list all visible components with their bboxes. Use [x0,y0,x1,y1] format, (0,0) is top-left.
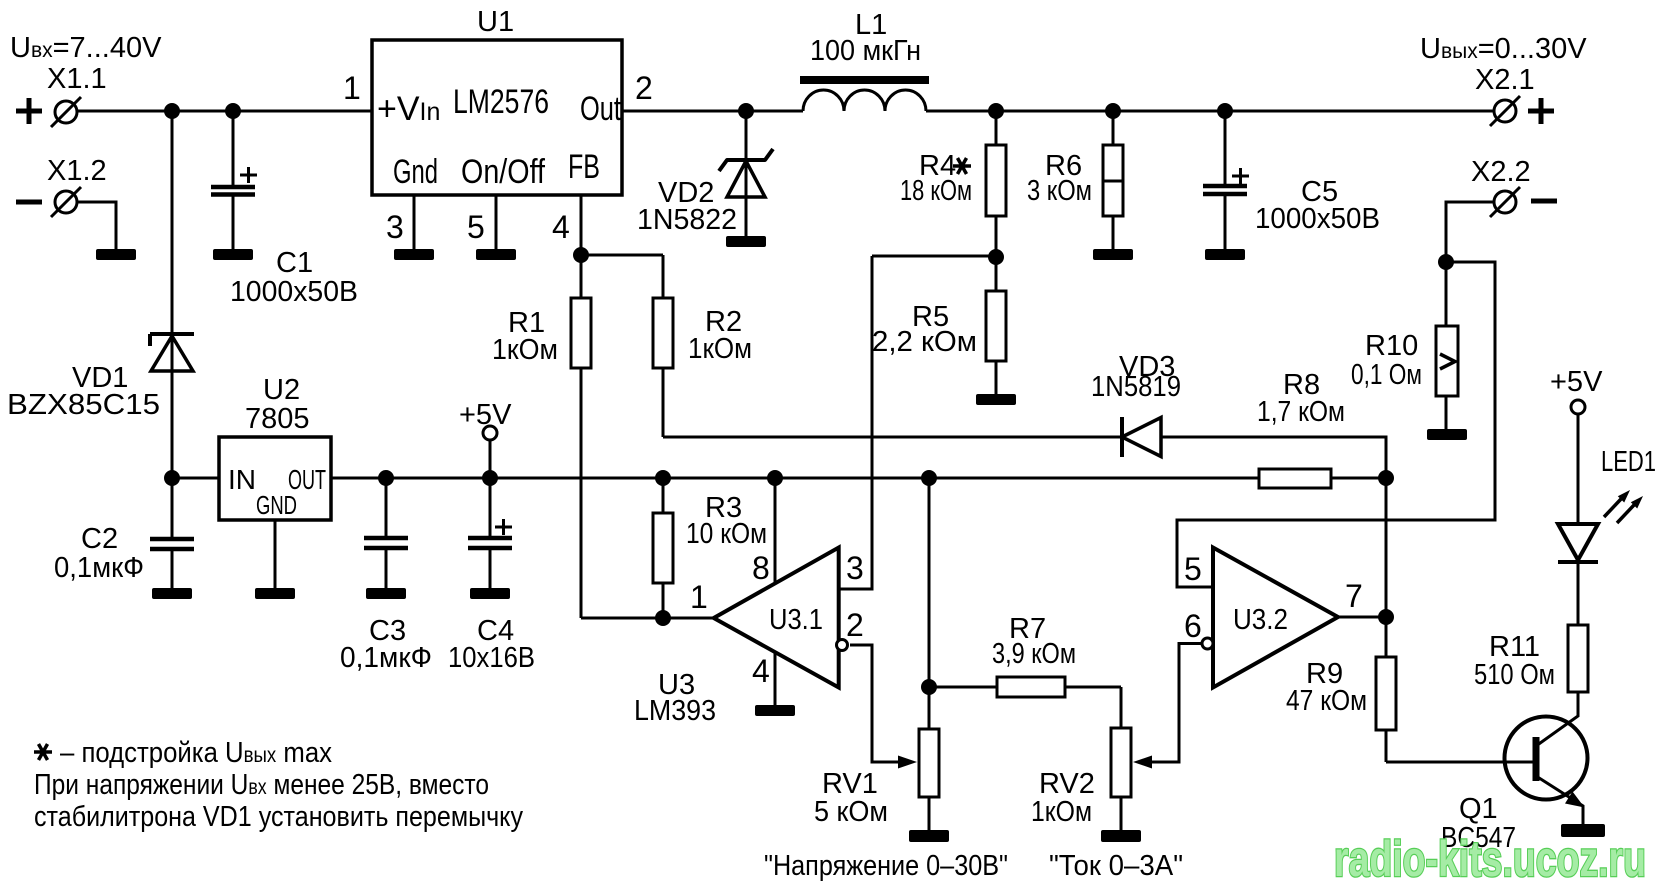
terminal X2.2 [1494,191,1516,213]
node junction input-C1 [225,103,241,119]
node junction U3.1 power pin8 [767,470,783,486]
wire pin7 output U3.2 [1338,616,1386,619]
capacitor C4 [489,440,492,538]
svg-text:1кОм: 1кОм [688,333,752,365]
wire X1.2 to ground [77,202,116,249]
wire pin4 U3.1 [774,652,777,705]
svg-text:"Ток 0–3А": "Ток 0–3А" [1049,850,1183,882]
node plus sign input [16,98,42,124]
inductor L1 [800,76,929,84]
node minus sign output [1531,199,1557,204]
svg-text:FB: FB [568,148,600,186]
svg-text:U3.2: U3.2 [1233,604,1288,636]
wire pin3 U3.1 to R4-R5 divider [839,256,872,589]
op-amp U2 7805 box [219,437,331,520]
node junction R3 top [655,470,671,486]
terminal X1.2 [55,191,77,213]
note asterisk star [34,744,52,760]
op-amp U3.2 [1213,548,1338,688]
svg-text:1N5822: 1N5822 [637,204,737,236]
node junction C4 +5V [482,470,498,486]
svg-text:1кОм: 1кОм [492,334,558,366]
node junction R8-VD3 [1378,470,1394,486]
node junction pin7-R9 [1378,609,1394,625]
node junction VD2 [738,103,754,119]
LED arrows [1604,499,1621,517]
svg-text:IN: IN [228,464,256,495]
node junction input-VD1 [164,103,180,119]
resistor R2 [662,255,665,437]
resistor R11 [1568,625,1588,692]
svg-text:1: 1 [690,579,708,615]
svg-text:4: 4 [552,209,570,245]
svg-text:X1.2: X1.2 [47,155,107,187]
svg-text:5: 5 [1184,551,1202,587]
svg-text:Gnd: Gnd [393,153,438,191]
wiper arrow RV1 [898,756,917,769]
svg-text:7805: 7805 [245,403,310,435]
svg-text:U1: U1 [477,6,514,38]
wire output rail U1.Out to L1 [622,110,803,113]
zener VD1 [150,334,194,346]
node junction RV1-R7 [921,679,937,695]
ground U3.1 pin4 [755,705,795,716]
op-amp U3.1 [714,548,839,688]
ground RV1 [909,830,949,842]
svg-text:4: 4 [752,653,770,689]
op-amp U1 LM2576 box [372,40,622,195]
wire R9 to Q1 base [1386,761,1534,764]
ground RV2 [1101,830,1141,842]
wire VD1 column [171,111,174,538]
svg-text:5 кОм: 5 кОм [814,796,888,828]
diode VD2 1N5822 [745,111,748,237]
node bubble pin2 U3.1 [837,640,848,651]
svg-text:GND: GND [256,490,297,520]
svg-text:18 кОм: 18 кОм [900,175,972,207]
ground R10 [1427,429,1467,440]
ground Q1 emitter [1561,824,1605,837]
svg-text:510 Ом: 510 Ом [1474,659,1555,691]
node junction R4 [988,103,1004,119]
svg-text:2: 2 [846,607,864,643]
ground U2 [255,588,295,599]
resistor R1 [580,255,583,618]
svg-text:0,1мкФ: 0,1мкФ [340,642,432,674]
resistor R3 [662,478,665,618]
node minus sign input [16,200,42,205]
node junction X2.2-R10 [1438,254,1454,270]
svg-text:1N5819: 1N5819 [1091,371,1181,403]
node FB junction [573,247,589,263]
svg-text:"Напряжение 0–30В": "Напряжение 0–30В" [764,850,1008,882]
wire current sense bypass to U3.2 pin5 [1177,262,1495,587]
svg-text:X2.2: X2.2 [1471,156,1531,188]
svg-text:BZX85C15: BZX85C15 [7,389,160,421]
wire U2 GND pin [274,520,277,588]
wire R4-R5 node to pin3 column [872,255,996,258]
diode VD3 1N5819 [1120,417,1124,457]
svg-text:6: 6 [1184,608,1202,644]
resistor R6 [1112,111,1115,249]
svg-text:radio-kits.ucoz.ru: radio-kits.ucoz.ru [1334,831,1646,887]
svg-text:3 кОм: 3 кОм [1027,175,1092,207]
svg-text:U3.1: U3.1 [769,604,823,636]
svg-text:+5V: +5V [1550,366,1603,398]
svg-text:X1.1: X1.1 [47,63,107,95]
node junction R4-R5 [988,249,1004,265]
wire pin8 [774,478,777,584]
svg-text:3,9 кОм: 3,9 кОм [992,638,1076,670]
LED LED1 [1558,524,1598,560]
node junction C5 [1217,103,1233,119]
svg-text:47 кОм: 47 кОм [1286,685,1367,717]
svg-text:LM2576: LM2576 [453,83,549,121]
wire FB to R2 [581,254,663,257]
node junction R3 bottom / pin1 [655,610,671,626]
pin 5 U1 On/Off [495,195,498,249]
svg-text:LM393: LM393 [634,695,716,727]
terminal +5V [483,426,497,440]
wire pin2 U3.1 to RV1 wiper [850,645,902,762]
svg-text:1,7 кОм: 1,7 кОм [1257,396,1345,428]
terminal X2.1 [1494,100,1516,122]
svg-text:10х16В: 10х16В [448,642,535,674]
svg-text:+5V: +5V [459,399,512,431]
wire VD1 to U2 IN [172,477,219,480]
transistor Q1 BC547 [1505,717,1588,800]
wire output rail L1 to X2.1 [926,110,1493,113]
wiper arrow RV2 [1133,756,1152,769]
potentiometer RV1 [928,478,931,830]
ground pin3 U1 [394,249,434,260]
node bubble pin6 U3.2 [1202,638,1213,649]
svg-text:– подстройка Uвых max: – подстройка Uвых max [60,737,332,769]
wire U3.1 output to R1 [581,617,713,620]
svg-text:Out: Out [580,90,621,128]
potentiometer RV2 [1120,687,1123,830]
svg-text:On/Off: On/Off [461,153,545,191]
resistor R8 [1259,469,1331,488]
wire +5V to LED [1577,414,1580,524]
svg-text:R10: R10 [1365,330,1418,362]
wire input rail X1.1 to U1 [77,110,372,113]
resistor R9 [1385,617,1388,762]
node junction VD1-U2.IN [164,470,180,486]
svg-text:8: 8 [752,550,770,586]
node junction RV1 top [921,470,937,486]
resistor R7 [929,686,1121,689]
capacitor C1 [232,111,235,187]
node junction R6 [1105,103,1121,119]
capacitor C2 [150,539,194,549]
svg-text:5: 5 [467,209,485,245]
terminal +5V LED [1571,400,1585,414]
svg-text:0,1мкФ: 0,1мкФ [54,552,144,584]
resistor R10 shunt [1445,262,1448,429]
svg-text:LED1: LED1 [1601,446,1656,478]
svg-text:100 мкГн: 100 мкГн [810,35,921,67]
svg-text:1: 1 [343,70,361,106]
svg-text:Q1: Q1 [1459,793,1498,825]
svg-text:7: 7 [1345,578,1363,614]
svg-text:C1: C1 [276,247,313,279]
resistor R4 [995,111,998,257]
svg-text:1кОм: 1кОм [1031,796,1092,828]
svg-text:C2: C2 [81,523,118,555]
node junction C3 [378,470,394,486]
svg-text:стабилитрона VD1 установить пе: стабилитрона VD1 установить перемычку [34,801,523,833]
pin 3 U1 Gnd [413,195,416,249]
wire +5V bus U2.OUT to R8 [331,477,1259,480]
svg-text:10 кОм: 10 кОм [686,518,767,550]
ground pin5 U1 [476,249,516,260]
pin 4 U1 FB [580,195,583,255]
capacitor C5 [1224,111,1227,186]
wire LED to R11 [1577,562,1580,625]
svg-text:X2.1: X2.1 [1475,64,1535,96]
svg-text:1000х50В: 1000х50В [230,276,358,308]
terminal X1.1 [55,101,77,123]
svg-text:1000х50В: 1000х50В [1255,203,1380,235]
svg-text:U2: U2 [263,374,300,406]
svg-text:2,2 кОм: 2,2 кОм [872,326,977,358]
ground X1.2 [96,249,136,260]
svg-text:0,1 Ом: 0,1 Ом [1351,359,1422,391]
svg-text:3: 3 [846,550,864,586]
wire VD3 to R8 node [1161,437,1386,478]
wire R8 node down to U3.2 output [1385,478,1388,617]
svg-text:3: 3 [386,209,404,245]
wire pin6 U3.2 to RV2 wiper [1150,644,1202,763]
wire R2 to VD3 [663,436,1122,439]
capacitor C3 [385,478,388,538]
wire X2.2 to R10 [1446,202,1494,262]
node plus sign output [1528,98,1554,124]
ground R5 [976,394,1016,405]
resistor R5 [995,257,998,394]
ground R6 [1093,249,1133,260]
svg-text:2: 2 [635,70,653,106]
